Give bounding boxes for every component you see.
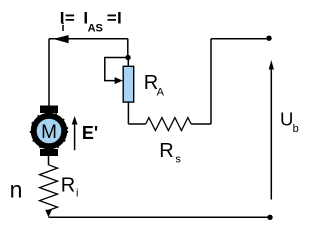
svg-text:i: i (76, 188, 78, 200)
node: junction dot above R_A (125, 55, 130, 60)
svg-text:M: M (41, 122, 57, 143)
svg-text:E': E' (82, 123, 98, 143)
resistor R_i (vertical zigzag) (40, 165, 58, 211)
wire: top horizontal from left corner to R_A branch (49, 38, 128, 40)
svg-text:I: I (117, 8, 122, 27)
svg-text:R: R (159, 140, 173, 162)
voltage arrow E' (pointing up) (74, 122, 76, 150)
svg-text:n: n (10, 177, 23, 203)
svg-text:=: = (65, 8, 75, 27)
wire: bottom horizontal to terminal (49, 216, 271, 218)
svg-text:U: U (280, 108, 293, 129)
label I_i = I_AS = I (60, 8, 122, 34)
wire: R_A bottom down to R_s level (127, 102, 129, 124)
svg-text:s: s (175, 154, 181, 166)
motor brush bottom (40, 149, 58, 156)
svg-text:i: i (62, 22, 65, 34)
arrowhead at bottom of R_i (pointing down) (48, 210, 50, 215)
resistor R_A (rheostat body, blue rectangle) (123, 66, 134, 102)
motor brush top (40, 106, 58, 114)
svg-text:AS: AS (88, 23, 103, 35)
wire: right riser up (210, 39, 212, 124)
wiper arrowhead (pointing right into R_A) (115, 77, 123, 84)
node: bottom right terminal dot (267, 215, 272, 220)
svg-text:b: b (293, 123, 299, 135)
wire: short vertical from top wire down to junction node (127, 39, 129, 58)
wire: top right horizontal to terminal (211, 38, 269, 40)
resistor R_s (zigzag) (146, 118, 191, 131)
wire: R_s right to the right riser (191, 123, 211, 125)
motor M (outer ring with blue core) (34, 116, 65, 147)
node: top right terminal dot (266, 36, 271, 41)
wire: horizontal to R_s (128, 123, 145, 125)
svg-text:A: A (157, 86, 165, 98)
wire: motor bottom to R_i (48, 156, 50, 165)
wiper tap wire of rheostat R_A (105, 58, 128, 81)
svg-text:=: = (107, 8, 117, 27)
svg-text:R: R (61, 174, 75, 196)
wire: junction dot down to R_A top (127, 58, 129, 67)
wire: left vertical down to motor (48, 39, 50, 107)
current direction arrowhead I (pointing left) (53, 35, 68, 43)
voltage arrow U_b (pointing up) (270, 67, 272, 200)
